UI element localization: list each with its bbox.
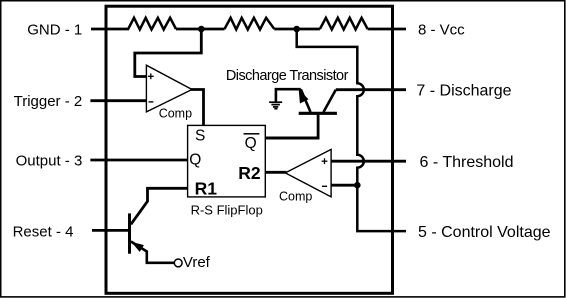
svg-text:8 - Vcc: 8 - Vcc <box>418 21 465 38</box>
wire U2 output to R2 input <box>265 171 286 174</box>
U1 plus sign <box>148 73 154 79</box>
svg-text:Trigger - 2: Trigger - 2 <box>14 93 83 110</box>
transistor Q1 emitter arrow <box>131 242 144 252</box>
svg-text:Discharge Transistor: Discharge Transistor <box>226 68 349 84</box>
op-amp U2 threshold comparator <box>285 149 331 197</box>
wire node1 to comparator U1 plus input <box>135 30 202 77</box>
flip-flop box U3 <box>188 125 266 196</box>
wire Q2 emitter to ground <box>276 89 301 101</box>
transistor Q2 emitter <box>301 89 311 112</box>
svg-text:Q: Q <box>245 135 257 152</box>
transistor Q2 base bar <box>299 112 337 115</box>
transistor Q1 emitter <box>131 242 174 263</box>
wire U2 minus input to control rail <box>331 184 357 187</box>
svg-text:S: S <box>195 127 205 144</box>
wire pin3 to Q output <box>90 159 187 162</box>
svg-text:Vref: Vref <box>183 254 211 271</box>
U1 minus sign <box>149 101 154 103</box>
svg-text:6 - Threshold: 6 - Threshold <box>420 154 514 171</box>
ground <box>269 102 282 109</box>
wire node2 down and control rail with hops to pin 5 <box>297 30 406 231</box>
svg-text:R1: R1 <box>195 179 218 199</box>
wire node2 to RC <box>297 28 320 31</box>
svg-text:R2: R2 <box>238 163 261 183</box>
IC body outline <box>106 6 393 293</box>
overline of Q-bar <box>244 133 260 135</box>
svg-text:Comp: Comp <box>279 189 312 203</box>
node 3 junction dot on control rail <box>354 182 361 189</box>
U2 minus sign <box>322 185 327 187</box>
resistor RA <box>128 18 176 30</box>
wire Q2 base stub <box>317 113 320 139</box>
transistor Q1 collector <box>131 188 188 224</box>
wire RA to node1 <box>176 28 201 31</box>
wire U1 output to S input <box>191 90 204 127</box>
Vref terminal circle <box>174 259 182 267</box>
wire RC to pin 8 <box>368 28 406 31</box>
wire pin6 to comparator U2 plus input <box>331 160 406 163</box>
svg-text:Q: Q <box>189 152 201 169</box>
wire Q2 collector to pin 7 <box>336 88 406 91</box>
op-amp U1 trigger comparator <box>146 65 192 112</box>
wire pin2 to comparator U1 minus input <box>90 99 146 102</box>
svg-text:GND - 1: GND - 1 <box>27 21 82 38</box>
transistor Q2 emitter arrow <box>299 89 309 103</box>
svg-text:Reset - 4: Reset - 4 <box>13 224 74 241</box>
node 2 junction dot <box>293 26 300 33</box>
wire node1 to RB <box>201 28 224 31</box>
wire pin4 to Q1 base <box>92 229 130 232</box>
wire pin1 to resistor chain <box>91 28 129 31</box>
svg-text:R-S FlipFlop: R-S FlipFlop <box>191 202 263 217</box>
wire Q-bar output to Q2 base <box>265 137 319 140</box>
svg-text:5 - Control Voltage: 5 - Control Voltage <box>418 224 551 241</box>
svg-text:Output - 3: Output - 3 <box>16 152 83 169</box>
svg-text:Comp: Comp <box>159 107 192 121</box>
svg-text:7 - Discharge: 7 - Discharge <box>416 83 511 100</box>
wire RB to node2 <box>274 28 296 31</box>
resistor RB <box>225 18 275 30</box>
node 1 junction dot <box>198 26 205 33</box>
transistor Q2 collector <box>324 90 336 112</box>
resistor RC <box>320 18 368 30</box>
transistor Q1 base bar <box>128 213 131 253</box>
U2 plus sign <box>322 158 328 164</box>
